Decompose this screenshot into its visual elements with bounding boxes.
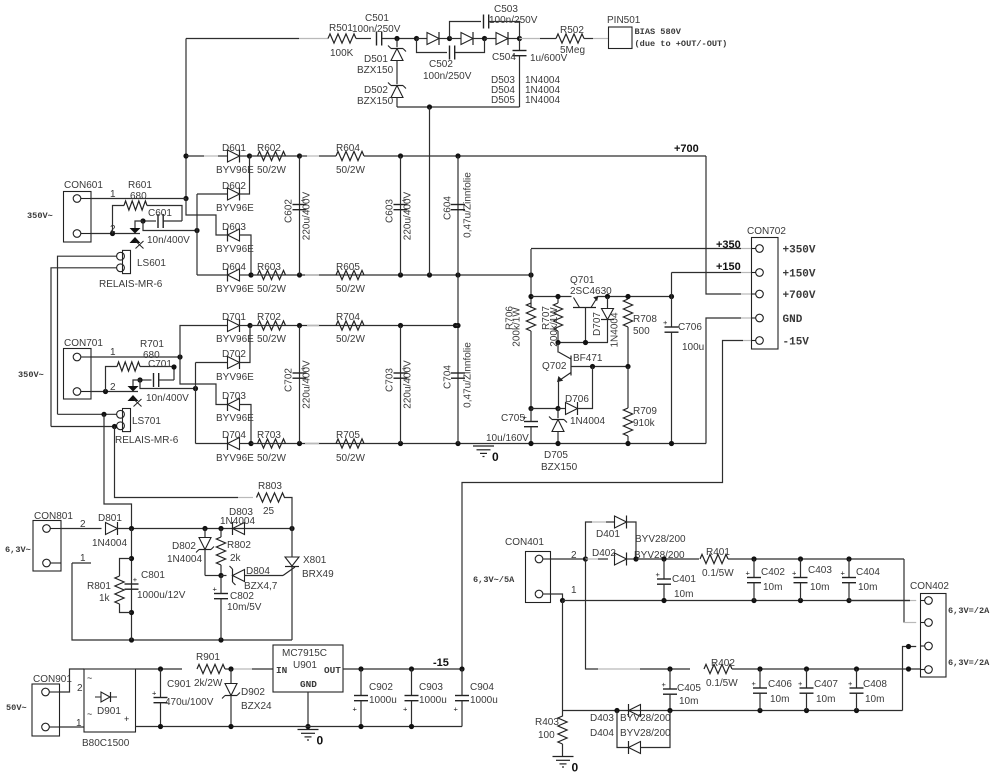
svg-text:C408: C408	[863, 679, 887, 690]
wire	[473, 38, 485, 40]
wire regulator rail left	[531, 296, 572, 298]
node	[583, 556, 588, 561]
svg-text:220u/400V: 220u/400V	[403, 360, 414, 409]
svg-text:1000u/12V: 1000u/12V	[137, 590, 186, 601]
connector CON601	[64, 192, 92, 243]
svg-text:C802: C802	[230, 591, 254, 602]
diode D403	[629, 705, 641, 717]
wire +700 rail	[250, 155, 300, 157]
svg-text:680: 680	[130, 191, 147, 202]
svg-text:D801: D801	[98, 513, 122, 524]
node	[228, 666, 233, 671]
node	[297, 153, 302, 158]
svg-text:D603: D603	[222, 222, 246, 233]
node	[129, 637, 134, 642]
svg-text:+: +	[353, 705, 358, 714]
svg-text:CON901: CON901	[33, 674, 72, 685]
wire	[140, 380, 196, 389]
svg-text:BIAS 580V: BIAS 580V	[635, 27, 682, 37]
capacitor C601	[143, 220, 156, 222]
node	[110, 231, 115, 236]
svg-text:BYV96E: BYV96E	[216, 334, 254, 345]
svg-text:R803: R803	[258, 481, 282, 492]
capacitor C408	[856, 669, 858, 688]
svg-text:+: +	[792, 569, 797, 578]
diode D402	[586, 558, 599, 560]
svg-text:D705: D705	[544, 450, 568, 461]
svg-text:R402: R402	[711, 658, 735, 669]
wire	[72, 562, 91, 564]
svg-text:(due to +OUT/-OUT): (due to +OUT/-OUT)	[635, 39, 728, 49]
connector CON801	[33, 521, 61, 572]
svg-text:D802: D802	[172, 541, 196, 552]
relay coil LS701	[123, 409, 131, 432]
node	[528, 441, 533, 446]
svg-text:+700V: +700V	[783, 290, 816, 302]
wire +350 rail	[251, 274, 531, 276]
zener diode D705	[557, 409, 559, 419]
node	[555, 406, 560, 411]
svg-text:C603: C603	[385, 199, 396, 223]
diode D706	[558, 408, 566, 410]
diode D803	[233, 523, 245, 535]
connector CON402	[921, 594, 947, 678]
ground	[553, 756, 574, 758]
svg-text:D501: D501	[364, 54, 388, 65]
node	[297, 441, 302, 446]
svg-text:CON401: CON401	[505, 537, 544, 548]
wire	[382, 38, 417, 40]
capacitor C603	[400, 156, 402, 275]
node	[305, 724, 310, 729]
node	[247, 323, 252, 328]
svg-text:U901: U901	[293, 660, 317, 671]
svg-text:BZX24: BZX24	[241, 701, 272, 712]
capacitor C904	[455, 695, 469, 697]
svg-text:CON801: CON801	[34, 511, 73, 522]
ground	[473, 445, 494, 447]
svg-text:10m: 10m	[865, 694, 884, 705]
zener diode D501	[396, 39, 398, 48]
svg-text:-15: -15	[433, 657, 449, 669]
svg-text:2k: 2k	[230, 553, 242, 564]
svg-text:C704: C704	[443, 365, 454, 389]
capacitor C406	[759, 669, 761, 688]
capacitor C902	[360, 669, 362, 696]
wire return rail upper	[563, 600, 911, 602]
wire	[180, 357, 228, 405]
wire	[58, 413, 117, 415]
node	[358, 724, 363, 729]
resistor R603	[258, 270, 286, 279]
svg-text:D702: D702	[222, 349, 246, 360]
svg-text:D401: D401	[596, 529, 620, 540]
diode D505	[485, 38, 497, 40]
ground	[298, 729, 319, 731]
resistor R601	[113, 206, 125, 234]
svg-text:500: 500	[633, 326, 650, 337]
diode D704	[228, 438, 240, 450]
svg-text:BYV28/200: BYV28/200	[620, 728, 671, 739]
node	[555, 294, 560, 299]
diode D604	[228, 269, 240, 281]
wire	[60, 726, 85, 728]
node	[560, 598, 565, 603]
svg-text:C405: C405	[677, 683, 701, 694]
node	[455, 323, 460, 328]
wire	[51, 426, 117, 428]
capacitor C602	[299, 156, 301, 275]
svg-text:6,3V=/2A: 6,3V=/2A	[948, 606, 990, 616]
svg-text:RELAIS-MR-6: RELAIS-MR-6	[115, 435, 179, 446]
svg-text:50V~: 50V~	[6, 703, 27, 713]
resistor R605	[336, 270, 364, 279]
svg-text:R703: R703	[257, 430, 281, 441]
svg-text:0.1/5W: 0.1/5W	[702, 568, 734, 579]
svg-text:6,3V=/2A: 6,3V=/2A	[948, 658, 990, 668]
wire	[186, 199, 228, 236]
resistor R801	[120, 559, 132, 577]
svg-text:D604: D604	[222, 262, 246, 273]
svg-text:910k: 910k	[633, 418, 656, 429]
capacitor C802	[214, 593, 228, 595]
svg-text:BYV96E: BYV96E	[216, 284, 254, 295]
svg-text:BYV28/200: BYV28/200	[635, 534, 686, 545]
svg-text:R702: R702	[257, 312, 281, 323]
svg-text:C602: C602	[284, 199, 295, 223]
zener diode D802	[204, 529, 206, 538]
capacitor C903	[411, 669, 413, 696]
wire	[58, 256, 117, 414]
svg-text:C703: C703	[385, 368, 396, 392]
resistor R402	[704, 664, 732, 673]
svg-text:50/2W: 50/2W	[257, 334, 286, 345]
svg-text:470u/100V: 470u/100V	[165, 697, 214, 708]
wire	[143, 221, 197, 231]
svg-text:+350V: +350V	[783, 245, 816, 257]
svg-text:+150: +150	[716, 261, 741, 273]
svg-text:D704: D704	[222, 430, 246, 441]
node	[605, 294, 610, 299]
svg-text:B80C1500: B80C1500	[82, 738, 130, 749]
wire Q702 base	[571, 366, 628, 368]
capacitor C402	[753, 559, 755, 578]
wire	[429, 107, 431, 275]
svg-text:D901: D901	[97, 706, 121, 717]
wire +6V rail upper	[636, 558, 699, 560]
svg-text:+: +	[403, 705, 408, 714]
wire	[205, 575, 221, 577]
resistor R702	[258, 321, 286, 330]
wire	[849, 600, 910, 602]
wire	[356, 38, 371, 40]
svg-text:1: 1	[80, 553, 86, 564]
svg-text:1: 1	[571, 585, 577, 596]
svg-text:6,3V~/5A: 6,3V~/5A	[473, 575, 515, 585]
node	[398, 153, 403, 158]
svg-text:R708: R708	[633, 314, 657, 325]
svg-text:50/2W: 50/2W	[336, 165, 365, 176]
wire GND to CON702	[706, 318, 741, 444]
svg-text:100n/250V: 100n/250V	[489, 15, 538, 26]
svg-text:C503: C503	[494, 4, 518, 15]
wire	[364, 155, 706, 157]
svg-text:350V~: 350V~	[27, 211, 53, 221]
svg-text:1000u: 1000u	[419, 695, 447, 706]
svg-text:50/2W: 50/2W	[336, 284, 365, 295]
wire regulator rail right	[597, 296, 672, 298]
svg-text:+: +	[656, 570, 661, 579]
svg-text:+: +	[662, 680, 667, 689]
wire	[439, 38, 450, 40]
svg-text:350V~: 350V~	[18, 370, 44, 380]
capacitor C604	[457, 156, 459, 275]
node	[625, 441, 630, 446]
svg-text:1N4004: 1N4004	[92, 538, 127, 549]
resistor R803	[238, 497, 253, 499]
svg-text:CON702: CON702	[747, 226, 786, 237]
svg-text:GND: GND	[783, 314, 803, 326]
wire	[115, 427, 239, 498]
node	[183, 153, 188, 158]
node	[555, 340, 560, 345]
wire	[91, 391, 138, 393]
resistor R709	[627, 367, 629, 409]
wire	[531, 408, 558, 410]
svg-text:R901: R901	[196, 652, 220, 663]
node	[140, 218, 145, 223]
svg-text:+: +	[848, 679, 853, 688]
svg-text:RELAIS-MR-6: RELAIS-MR-6	[99, 279, 163, 290]
node	[517, 36, 522, 41]
bridge rectifier D901	[84, 669, 136, 732]
svg-text:D505: D505	[491, 95, 515, 106]
node	[528, 294, 533, 299]
resistor R602	[258, 151, 286, 160]
svg-text:D707: D707	[592, 312, 603, 336]
wire	[300, 155, 308, 157]
svg-text:C403: C403	[808, 565, 832, 576]
wire -V rail	[136, 668, 161, 670]
wire	[508, 38, 520, 40]
resistor R403	[562, 711, 564, 717]
svg-text:1: 1	[110, 347, 116, 358]
thyristor X801	[283, 567, 295, 576]
svg-text:C901: C901	[167, 679, 191, 690]
node	[194, 228, 199, 233]
svg-text:C402: C402	[761, 567, 785, 578]
svg-text:200k/1W: 200k/1W	[512, 307, 523, 347]
svg-text:R403: R403	[535, 717, 559, 728]
capacitor C404	[848, 559, 850, 578]
svg-text:C406: C406	[768, 679, 792, 690]
capacitor C405	[669, 669, 671, 689]
svg-text:R801: R801	[87, 581, 111, 592]
svg-text:R704: R704	[336, 312, 360, 323]
svg-text:BYV96E: BYV96E	[216, 413, 254, 424]
svg-text:10m: 10m	[816, 694, 835, 705]
node	[669, 441, 674, 446]
svg-text:C604: C604	[443, 196, 454, 220]
svg-text:D902: D902	[241, 687, 265, 698]
svg-text:0.1/5W: 0.1/5W	[706, 678, 738, 689]
relay contact LS601	[130, 228, 141, 234]
wire -15 rail	[343, 668, 462, 670]
resistor R706	[526, 303, 535, 331]
connector CON401	[526, 552, 551, 603]
wire 0V rail	[136, 726, 463, 728]
svg-text:D502: D502	[364, 85, 388, 96]
svg-text:C903: C903	[419, 682, 443, 693]
svg-text:R602: R602	[257, 143, 281, 154]
svg-text:2k/2W: 2k/2W	[194, 678, 223, 689]
svg-text:1N4004: 1N4004	[167, 554, 202, 565]
node	[394, 36, 399, 41]
diode D602	[228, 188, 240, 200]
wire	[60, 669, 85, 692]
svg-text:0,47u/Zinnfolie: 0,47u/Zinnfolie	[463, 342, 474, 408]
diode D701	[180, 326, 228, 358]
node	[528, 406, 533, 411]
diode D804 BZX4,7	[221, 575, 227, 577]
svg-text:R709: R709	[633, 406, 657, 417]
wire	[225, 668, 231, 670]
wire	[456, 325, 459, 327]
svg-text:100: 100	[538, 730, 555, 741]
diode D707	[607, 297, 609, 309]
svg-text:1000u: 1000u	[470, 695, 498, 706]
node	[129, 526, 134, 531]
node	[482, 36, 487, 41]
wire return rail lower	[563, 710, 903, 712]
svg-text:C801: C801	[141, 570, 165, 581]
zener diode D902	[230, 669, 232, 683]
svg-text:PIN501: PIN501	[607, 15, 641, 26]
node	[101, 412, 106, 417]
svg-text:R501: R501	[329, 23, 353, 34]
svg-text:+: +	[454, 705, 459, 714]
wire	[186, 38, 299, 40]
resistor R701	[106, 367, 118, 392]
wire to CON702 +700V	[706, 156, 741, 294]
svg-text:+: +	[663, 318, 668, 327]
wire -15V from CON702	[743, 340, 752, 342]
node	[427, 104, 432, 109]
svg-text:100K: 100K	[330, 48, 354, 59]
node	[103, 389, 108, 394]
svg-text:CON701: CON701	[64, 338, 103, 349]
node	[158, 666, 163, 671]
svg-text:X801: X801	[303, 555, 327, 566]
svg-text:0: 0	[317, 734, 324, 748]
svg-text:D404: D404	[590, 728, 614, 739]
svg-text:10m: 10m	[810, 582, 829, 593]
svg-text:C502: C502	[429, 59, 453, 70]
svg-text:~: ~	[87, 673, 92, 683]
wire	[195, 363, 197, 444]
svg-text:50/2W: 50/2W	[336, 453, 365, 464]
svg-text:MC7915C: MC7915C	[282, 648, 327, 659]
svg-text:50/2W: 50/2W	[257, 284, 286, 295]
wire Q701 base	[585, 308, 587, 343]
resistor R604	[336, 151, 364, 160]
svg-text:LS701: LS701	[132, 416, 161, 427]
svg-text:BF471: BF471	[573, 353, 603, 364]
wire	[307, 692, 309, 727]
wire	[197, 274, 228, 276]
wire	[396, 98, 398, 108]
svg-text:10m/5V: 10m/5V	[227, 602, 262, 613]
diode D601	[218, 155, 228, 157]
svg-text:C407: C407	[814, 679, 838, 690]
capacitor C901	[160, 669, 162, 698]
svg-text:1000u: 1000u	[369, 695, 397, 706]
diode D401	[586, 522, 593, 559]
svg-text:IN: IN	[276, 665, 288, 676]
svg-text:+: +	[213, 585, 218, 594]
svg-text:C902: C902	[369, 682, 393, 693]
relay coil LS601	[123, 250, 131, 273]
svg-text:-15V: -15V	[783, 337, 810, 349]
wire to CON402 pin2	[903, 559, 905, 623]
svg-text:R603: R603	[257, 262, 281, 273]
svg-text:100n/250V: 100n/250V	[423, 71, 472, 82]
wire R402 feed	[586, 559, 599, 669]
node	[177, 354, 182, 359]
node	[297, 323, 302, 328]
svg-text:0,47u/Zinnfolie: 0,47u/Zinnfolie	[463, 172, 474, 238]
svg-text:D602: D602	[222, 181, 246, 192]
node	[614, 708, 619, 713]
wire +350 to CON702	[530, 249, 532, 308]
svg-text:Q702: Q702	[542, 361, 567, 372]
svg-text:R605: R605	[336, 262, 360, 273]
wire	[51, 268, 117, 427]
svg-text:220u/400V: 220u/400V	[302, 191, 313, 240]
svg-text:R705: R705	[336, 430, 360, 441]
svg-text:D601: D601	[222, 143, 246, 154]
node	[112, 424, 117, 429]
svg-text:0: 0	[492, 450, 499, 464]
diode D603	[228, 229, 240, 241]
svg-text:2: 2	[77, 683, 83, 694]
diode D801	[106, 523, 118, 535]
svg-text:D804: D804	[246, 566, 270, 577]
wire +150	[672, 272, 742, 274]
wire	[562, 601, 564, 711]
wire +6V rail lower	[732, 668, 921, 670]
svg-text:Q701: Q701	[570, 275, 595, 286]
capacitor C701	[140, 379, 152, 381]
capacitor C403	[800, 559, 802, 578]
capacitor C702	[299, 326, 301, 444]
capacitor C706	[671, 273, 673, 328]
svg-text:BYV28/200: BYV28/200	[620, 713, 671, 724]
resistor R802	[220, 529, 222, 538]
svg-text:50/2W: 50/2W	[336, 334, 365, 345]
node	[247, 153, 252, 158]
svg-text:BYV96E: BYV96E	[216, 453, 254, 464]
capacitor C703	[400, 326, 402, 444]
svg-text:~: ~	[87, 709, 92, 719]
wire	[131, 529, 133, 641]
connector CON702	[752, 238, 779, 350]
wire	[396, 61, 398, 85]
wire 0V rail	[251, 443, 706, 445]
svg-text:0: 0	[572, 761, 579, 775]
wire +350 top rail	[250, 325, 456, 327]
node	[158, 724, 163, 729]
